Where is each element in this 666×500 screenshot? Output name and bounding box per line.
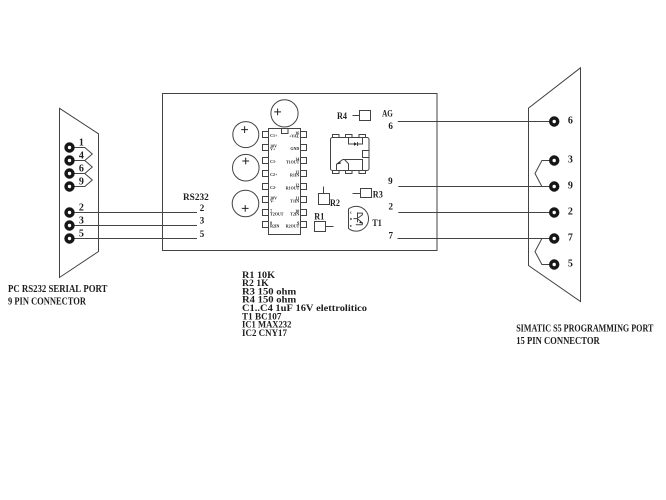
svg-text:T1IN: T1IN bbox=[290, 199, 299, 204]
svg-text:R4: R4 bbox=[337, 112, 347, 122]
svg-text:6: 6 bbox=[79, 164, 84, 175]
IC1 pin label V- bbox=[270, 195, 277, 203]
J1 pin 4 bbox=[64, 155, 74, 165]
svg-text:C2-: C2- bbox=[270, 185, 277, 190]
transistor T1 BC107 bbox=[349, 206, 369, 231]
svg-text:T2OUT: T2OUT bbox=[270, 212, 284, 217]
J2 pin 6 bbox=[549, 116, 559, 126]
IC1 pin 4 bbox=[263, 171, 269, 177]
IC1 MAX232 body bbox=[269, 129, 301, 235]
IC1 pin label V+ bbox=[270, 143, 277, 151]
IC1 pin 9 bbox=[301, 222, 307, 228]
capacitor C1 (top, over IC1) bbox=[271, 100, 298, 127]
svg-text:3: 3 bbox=[568, 155, 573, 166]
svg-text:R2OUT: R2OUT bbox=[286, 224, 300, 229]
IC1 pin 15 bbox=[301, 145, 307, 151]
svg-text:3: 3 bbox=[200, 216, 205, 226]
resistor R1 bbox=[315, 222, 334, 232]
capacitor C3 bbox=[233, 154, 260, 181]
IC1 pin 11 bbox=[301, 197, 307, 203]
svg-text:9: 9 bbox=[568, 181, 573, 192]
svg-text:6: 6 bbox=[388, 121, 393, 131]
svg-text:C1-: C1- bbox=[270, 159, 277, 164]
IC1 pin label T2OUT bbox=[270, 208, 284, 216]
IC1 pin 5 bbox=[263, 184, 269, 190]
svg-text:V-: V- bbox=[270, 199, 275, 204]
svg-text:T2IN: T2IN bbox=[290, 212, 299, 217]
J2 pin 9 bbox=[549, 181, 559, 191]
svg-text:2: 2 bbox=[568, 207, 573, 218]
IC1 pin label R1IN bbox=[290, 169, 299, 177]
svg-text:15 PIN CONNECTOR: 15 PIN CONNECTOR bbox=[516, 335, 600, 347]
IC1 pin 13 bbox=[301, 171, 307, 177]
svg-text:PC RS232 SERIAL PORT: PC RS232 SERIAL PORT bbox=[8, 283, 108, 295]
IC1 pin label R2IN bbox=[270, 220, 279, 228]
svg-text:9: 9 bbox=[79, 177, 84, 188]
svg-text:5: 5 bbox=[200, 229, 205, 239]
IC1 pin label T1OUT bbox=[286, 156, 300, 164]
IC2 base contact rect bbox=[363, 151, 370, 158]
wire board to J2 pin2 bbox=[398, 212, 549, 214]
IC2 internal phototransistor bbox=[337, 160, 363, 171]
resistor R3 bbox=[353, 189, 372, 198]
svg-text:R2: R2 bbox=[330, 199, 340, 209]
IC1 pin label +VAL bbox=[289, 130, 300, 138]
IC1 pin label T2IN bbox=[290, 208, 299, 216]
svg-text:R1IN: R1IN bbox=[290, 173, 299, 178]
J2 pin 7 bbox=[549, 233, 559, 243]
connector J1 outline (PC RS232 9 pin) bbox=[60, 108, 99, 277]
J1 pin 5 bbox=[64, 233, 74, 243]
IC1 pin 1 bbox=[263, 132, 269, 138]
svg-text:C2+: C2+ bbox=[270, 172, 278, 177]
optocoupler IC2 CNY17 body bbox=[331, 135, 370, 174]
J1 pin 9 bbox=[64, 181, 74, 191]
svg-text:5: 5 bbox=[568, 259, 573, 270]
svg-text:V+: V+ bbox=[270, 147, 276, 152]
board box outline bbox=[163, 94, 438, 251]
capacitor C2 bbox=[233, 122, 259, 148]
capacitor C4 bbox=[232, 190, 259, 217]
svg-text:R2IN: R2IN bbox=[270, 224, 279, 229]
svg-text:6: 6 bbox=[568, 116, 573, 127]
svg-text:T1: T1 bbox=[372, 219, 382, 229]
svg-text:GND: GND bbox=[290, 146, 299, 151]
svg-text:9: 9 bbox=[388, 176, 393, 186]
J1 pin 1 bbox=[64, 142, 74, 152]
wire J1 pin2 to board bbox=[75, 212, 198, 214]
J1 link pins 6-9 bbox=[70, 174, 93, 187]
svg-text:R1: R1 bbox=[314, 213, 324, 223]
J1 pin 2 bbox=[64, 207, 74, 217]
IC1 pin 7 bbox=[263, 210, 269, 216]
IC1 pin 2 bbox=[263, 145, 269, 151]
wire J1 pin5 to board bbox=[75, 238, 198, 240]
IC2 internal LED bbox=[349, 138, 363, 147]
IC1 pin 10 bbox=[301, 210, 307, 216]
wire board to J2 pin6 bbox=[398, 121, 550, 123]
resistor R2 bbox=[319, 187, 330, 205]
J2 pin 2 bbox=[549, 207, 559, 217]
svg-text:R3: R3 bbox=[373, 190, 383, 200]
J1 link pins 4-6 bbox=[70, 161, 93, 174]
wire board to J2 pin7 bbox=[398, 238, 550, 240]
wire J1 pin3 to board bbox=[75, 225, 198, 227]
J2 link pins 3-9 bbox=[535, 161, 550, 187]
IC1 pin 16 bbox=[301, 132, 307, 138]
J1 pin 3 bbox=[64, 220, 74, 230]
wire board to J2 pin9 bbox=[398, 186, 549, 188]
J1 pin 6 bbox=[64, 168, 74, 178]
IC1 pin 14 bbox=[301, 158, 307, 164]
svg-text:R1OUT: R1OUT bbox=[286, 186, 300, 191]
IC1 pin label R1OUT bbox=[286, 182, 300, 190]
svg-text:2: 2 bbox=[200, 203, 205, 213]
svg-text:C1+: C1+ bbox=[270, 133, 278, 138]
J2 link pins 7-5 bbox=[535, 239, 550, 265]
IC1 pin 12 bbox=[301, 184, 307, 190]
connector J2 outline (SIMATIC 15 pin) bbox=[529, 68, 581, 302]
svg-text:4: 4 bbox=[79, 151, 84, 162]
svg-text:9 PIN CONNECTOR: 9 PIN CONNECTOR bbox=[8, 296, 87, 308]
svg-text:+VAL: +VAL bbox=[289, 134, 300, 139]
IC1 pin 8 bbox=[263, 222, 269, 228]
svg-text:7: 7 bbox=[568, 233, 573, 244]
J2 pin 5 bbox=[549, 259, 559, 269]
IC1 pin label R2OUT bbox=[286, 220, 300, 228]
IC1 pin 6 bbox=[263, 197, 269, 203]
svg-text:1: 1 bbox=[79, 138, 84, 149]
J2 pin 3 bbox=[549, 155, 559, 165]
svg-text:T1OUT: T1OUT bbox=[286, 160, 300, 165]
svg-text:7: 7 bbox=[388, 231, 393, 241]
IC1 pin 3 bbox=[263, 158, 269, 164]
IC1 pin label T1IN bbox=[290, 195, 299, 203]
svg-text:IC2 CNY17: IC2 CNY17 bbox=[242, 328, 287, 338]
svg-text:AG: AG bbox=[382, 109, 393, 119]
svg-text:RS232: RS232 bbox=[183, 192, 209, 202]
J1 link pins 1-4 bbox=[70, 148, 93, 161]
svg-text:SIMATIC S5 PROGRAMMING PORT: SIMATIC S5 PROGRAMMING PORT bbox=[516, 322, 654, 334]
resistor R4 bbox=[353, 111, 371, 121]
svg-text:2: 2 bbox=[388, 202, 393, 212]
